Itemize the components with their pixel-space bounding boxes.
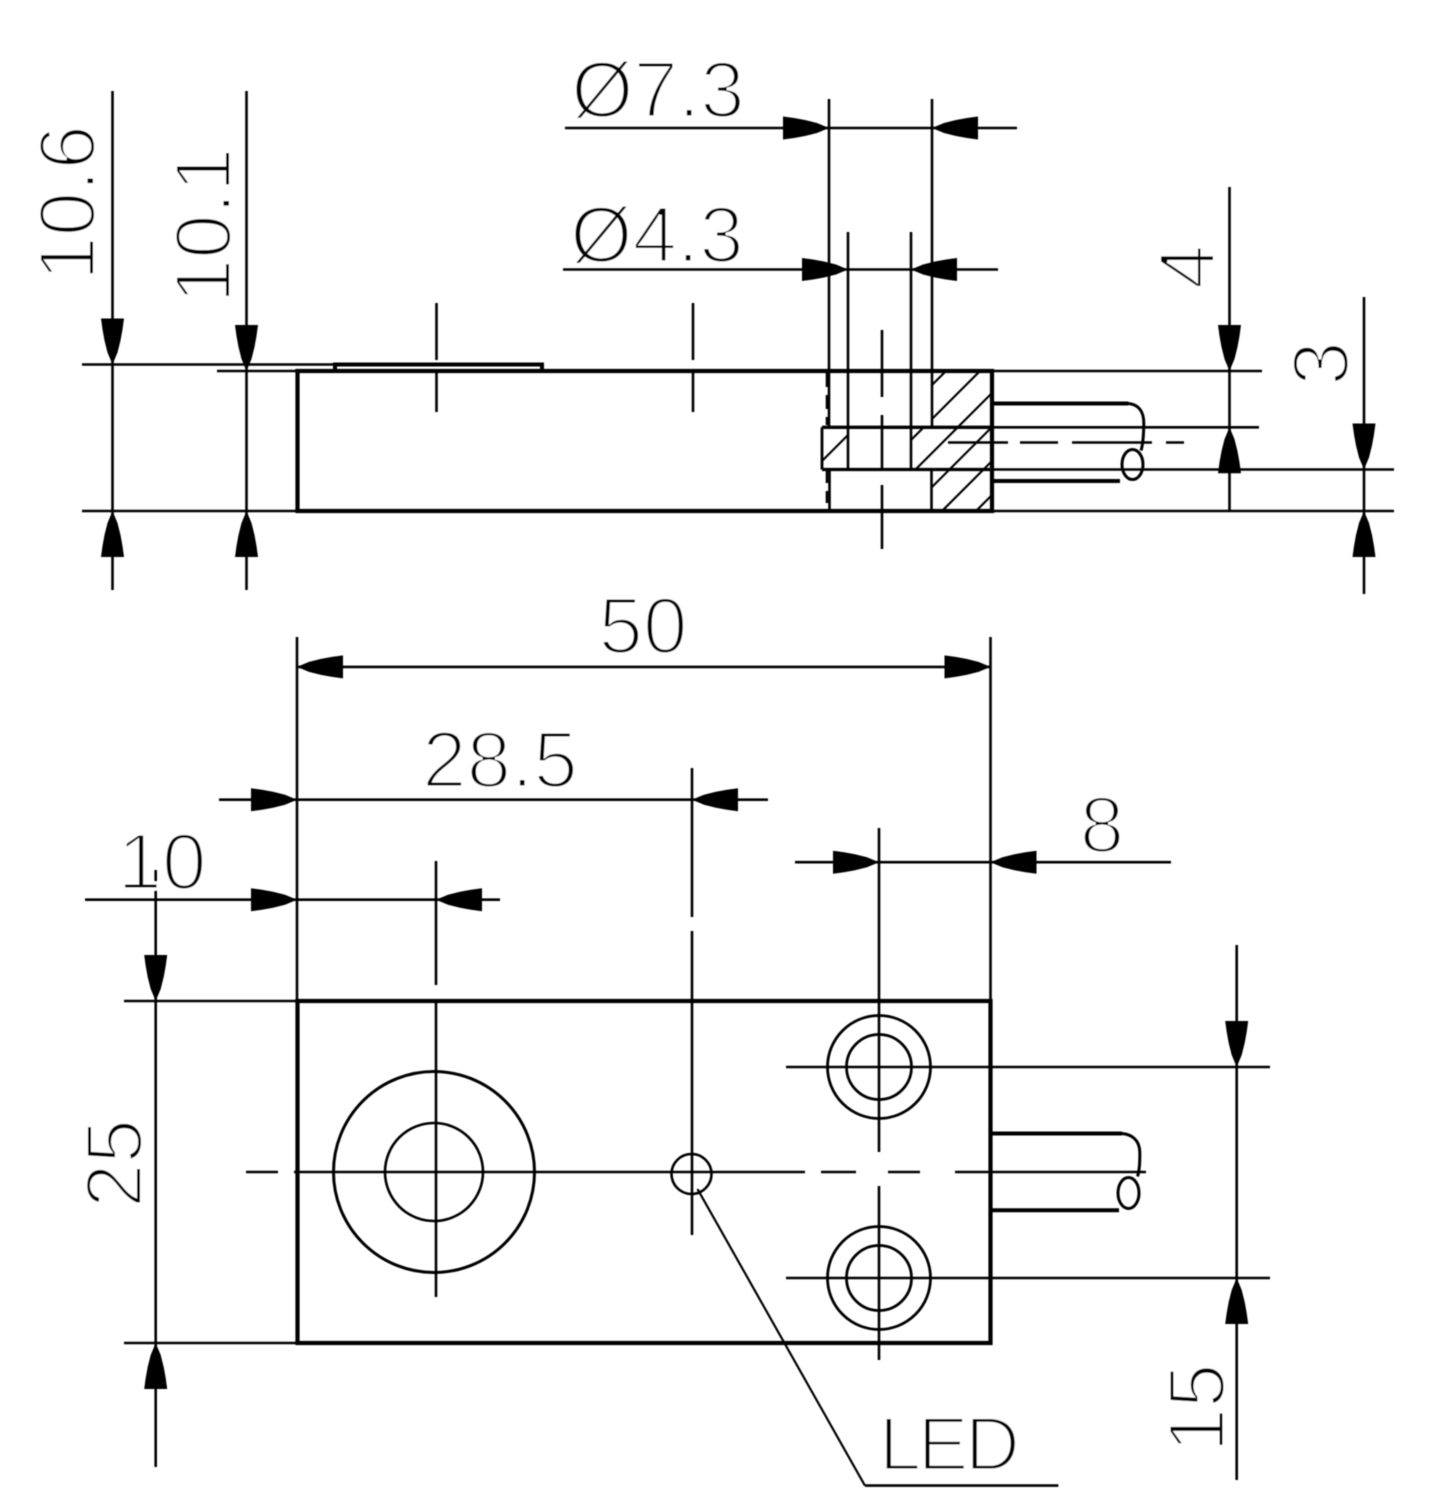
- arrow 8 right: [991, 851, 1037, 874]
- cable end break arc: [1129, 404, 1144, 451]
- LED label underline: [865, 1484, 1059, 1487]
- body top extension line to the right for dim 4: [992, 370, 1262, 373]
- gland flange left edge: [821, 427, 824, 469]
- dim 10.6 extension line (plate top): [82, 363, 335, 366]
- arrow 10 right: [436, 888, 482, 911]
- cable (top view) top: [992, 1132, 1122, 1136]
- mounting hole outer circle: [334, 1072, 535, 1273]
- arrow dim4 top: [1218, 325, 1241, 371]
- dimension line 10.6: [111, 91, 114, 590]
- svg-text:8: 8: [1080, 780, 1125, 869]
- cable (side view) top: [993, 402, 1129, 406]
- centerline of LED (side view): [692, 303, 695, 412]
- arrow dim3 top: [1353, 424, 1376, 470]
- arrow Ø7.3 left: [783, 117, 829, 140]
- arrow 50 right: [945, 655, 991, 678]
- svg-text:Ø4.3: Ø4.3: [570, 190, 743, 279]
- arrow Ø4.3 left: [802, 258, 848, 281]
- svg-text:15: 15: [1152, 1364, 1241, 1453]
- bore step line H2: [822, 426, 990, 429]
- cable (side view) bottom: [993, 479, 1120, 483]
- cable end break arc (top view): [1122, 1134, 1140, 1177]
- extension of H3 to the right for dim 3: [990, 468, 1394, 471]
- top extension line (body top left): [124, 1000, 297, 1003]
- dimension line 10.1: [245, 91, 248, 590]
- arrow 25 bottom: [144, 1343, 167, 1389]
- bore edge / extension line x=848 (Ø4.3 left): [847, 232, 850, 470]
- active face plate on top of body: [335, 365, 542, 372]
- svg-text:28.5: 28.5: [422, 715, 578, 804]
- mounting hole inner circle: [385, 1123, 483, 1221]
- arrow 15 bottom: [1225, 1278, 1248, 1324]
- screw hole 1 inner: [847, 1035, 912, 1100]
- vertical centerline of gland: [881, 330, 884, 549]
- dimension line 3: [1363, 297, 1366, 594]
- arrow 10.1 top: [235, 325, 258, 371]
- screw hole 2 outer: [828, 1227, 931, 1330]
- sensor body outline (top view): [298, 1001, 991, 1343]
- bore edge / extension line x=829 (Ø7.3 left): [828, 99, 831, 427]
- horizontal cable axis centerline: [948, 441, 1186, 444]
- sensor body outline (side view): [298, 371, 993, 511]
- extension of H2 to the right for dim 4: [990, 426, 1259, 429]
- bore edge / extension line x=932 (Ø7.3 right): [931, 99, 934, 427]
- arrow 10.6 top: [101, 319, 124, 365]
- cable end break loop: [1122, 450, 1143, 480]
- svg-text:25: 25: [70, 1119, 159, 1208]
- hidden line (dashed) x=827 lower: [826, 471, 829, 509]
- LED hole circle: [672, 1154, 712, 1194]
- screw holes vertical centerline: [878, 828, 881, 1360]
- svg-text:10: 10: [118, 817, 207, 906]
- body bottom extension line to the right for dim 3: [992, 510, 1394, 513]
- screw hole 2 horizontal centerline: [786, 1277, 1270, 1280]
- cable (top view) bottom: [992, 1208, 1119, 1212]
- arrow dim3 bottom: [1353, 511, 1376, 557]
- screw hole 2 inner: [847, 1246, 912, 1311]
- LED leader line: [698, 1189, 865, 1486]
- svg-text:50: 50: [599, 581, 688, 670]
- dimension line Ø4.3: [563, 268, 998, 271]
- arrow 10.1 bottom: [235, 511, 258, 557]
- dimension line 25: [154, 870, 157, 1467]
- arrow 50 left: [297, 655, 343, 678]
- LED vertical centerline: [691, 768, 694, 1235]
- svg-text:10.1: 10.1: [159, 148, 248, 304]
- svg-text:3: 3: [1276, 341, 1365, 386]
- arrow 28.5 right: [692, 788, 738, 811]
- arrow 25 top: [144, 955, 167, 1001]
- bottom extension line (body bottom left): [124, 1342, 297, 1345]
- dimension line 4: [1228, 187, 1231, 511]
- hidden line (dashed) x=827 upper: [826, 373, 829, 425]
- centerline of mounting hole (side view): [435, 303, 438, 412]
- section hatching of cable gland: [772, 371, 1116, 511]
- dimension line 10: [85, 898, 500, 901]
- left extension line (body left): [296, 637, 299, 1001]
- arrow dim4 bottom: [1218, 427, 1241, 473]
- svg-text:10.6: 10.6: [23, 125, 112, 281]
- cable end break loop (top view): [1118, 1178, 1139, 1209]
- arrow 10 left: [251, 888, 297, 911]
- arrow Ø7.3 right: [932, 117, 978, 140]
- bore edge / extension line x=911 (Ø4.3 right): [910, 232, 913, 470]
- main horizontal centerline: [246, 1171, 1146, 1174]
- dimension line 8: [795, 861, 1171, 864]
- svg-text:Ø7.3: Ø7.3: [571, 45, 744, 134]
- arrow 8 left: [833, 851, 879, 874]
- screw hole 1 horizontal centerline: [786, 1066, 1270, 1069]
- lower bore edge x=931.5: [930, 470, 933, 512]
- svg-text:LED: LED: [879, 1402, 1017, 1487]
- arrow Ø4.3 right: [911, 258, 957, 281]
- dimension line 50: [297, 666, 991, 669]
- arrow 28.5 left: [251, 788, 297, 811]
- bore step line H3: [822, 468, 990, 471]
- left extension line (body bottom): [82, 510, 298, 513]
- arrow 15 top: [1225, 1021, 1248, 1067]
- right extension line (body right): [989, 637, 992, 1001]
- dimension line 28.5: [219, 798, 768, 801]
- dimension line Ø7.3: [565, 127, 1017, 130]
- screw hole 1 outer: [828, 1016, 931, 1119]
- svg-text:4: 4: [1143, 245, 1232, 290]
- arrow 10.6 bottom: [101, 511, 124, 557]
- mounting hole vertical centerline: [435, 861, 438, 1297]
- dimension line 15: [1235, 945, 1238, 1480]
- lower bore edge x=829.5: [828, 470, 831, 512]
- dim 10.1 extension line (body top): [217, 370, 298, 373]
